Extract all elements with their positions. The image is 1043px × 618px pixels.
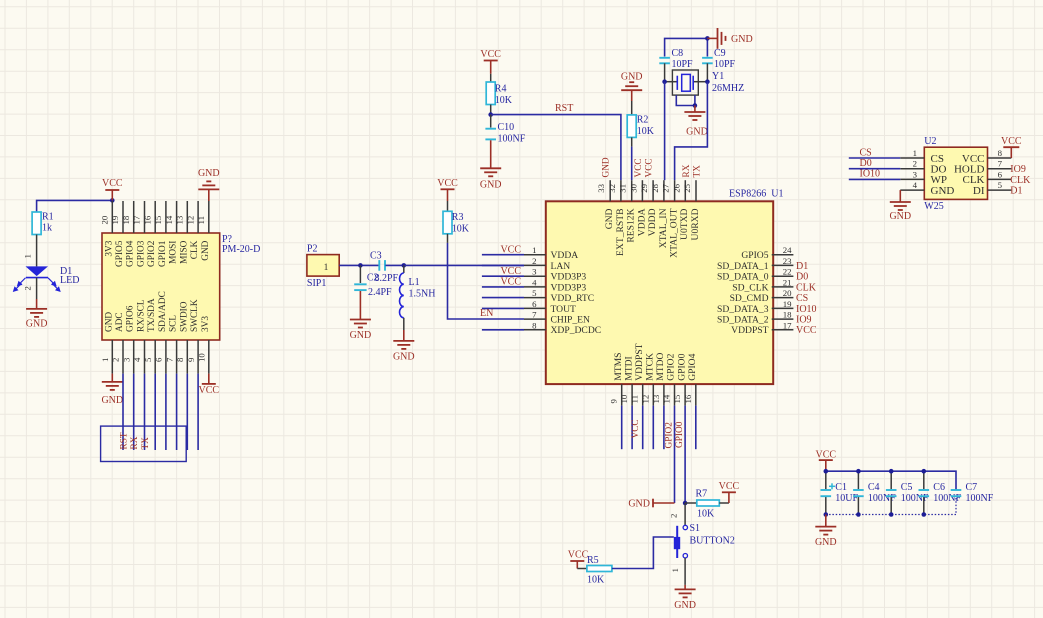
wire VCC to U1 pin 4 <box>482 286 524 288</box>
junction cap bottom <box>824 512 829 517</box>
svg-text:2.4PF: 2.4PF <box>368 287 392 298</box>
svg-text:100NF: 100NF <box>966 493 994 504</box>
svg-text:R4: R4 <box>495 84 507 95</box>
resistor R7 <box>685 502 697 504</box>
wire from P? pin 2 <box>122 374 124 450</box>
U1 pin 22 (SD_DATA_0) <box>772 275 794 277</box>
resistor R1 <box>32 212 41 235</box>
capacitor C8 <box>659 57 670 59</box>
ground bar label GND at GPIO2 <box>653 502 675 504</box>
capacitor C10 <box>490 115 492 128</box>
svg-text:1: 1 <box>532 245 536 255</box>
svg-text:GND: GND <box>686 127 708 138</box>
wire to U1 pin 8 <box>482 329 524 331</box>
svg-text:GPIO5: GPIO5 <box>741 250 768 261</box>
svg-text:GND: GND <box>628 499 650 510</box>
svg-text:BUTTON2: BUTTON2 <box>690 536 735 547</box>
svg-text:LED: LED <box>60 275 79 286</box>
U1 pin 19 (SD_DATA_3) <box>772 307 794 309</box>
svg-text:10UF: 10UF <box>835 493 858 504</box>
svg-text:3V3: 3V3 <box>104 240 114 256</box>
svg-text:GND: GND <box>26 319 48 330</box>
P? pin 20 (3V3) <box>111 201 113 233</box>
svg-text:13: 13 <box>651 394 661 403</box>
svg-text:L1: L1 <box>409 277 420 288</box>
svg-text:1k: 1k <box>42 223 52 234</box>
U2 pin 8 (VCC) <box>988 157 1012 159</box>
svg-text:SWCLK: SWCLK <box>190 299 200 332</box>
U1 pin 14 (GPIO2) <box>674 384 676 406</box>
C1 polarity plus <box>829 485 835 487</box>
svg-text:D0: D0 <box>860 158 872 169</box>
blue harness box <box>101 426 187 461</box>
svg-text:GPIO4: GPIO4 <box>126 240 136 267</box>
U1 pin 24 (GPIO5) <box>772 254 794 256</box>
wire XTAL_OUT to U1 pin 27 <box>675 82 708 181</box>
wire from P? pin 3 <box>133 374 135 450</box>
svg-text:2: 2 <box>913 159 917 169</box>
ground at U2 pin 4 <box>899 190 901 202</box>
svg-text:GPIO3: GPIO3 <box>137 240 147 267</box>
svg-text:18: 18 <box>121 215 131 224</box>
junction antenna node <box>358 263 363 268</box>
ground right of crystal top (rotated) <box>707 37 717 39</box>
wire stub U1 pin 13 <box>663 406 665 450</box>
svg-text:29: 29 <box>639 183 649 192</box>
svg-text:32: 32 <box>607 184 617 193</box>
power VCC right of R7 <box>728 492 730 503</box>
svg-text:CS: CS <box>860 147 872 158</box>
svg-text:8.2PF: 8.2PF <box>375 273 399 284</box>
svg-text:U0TXD: U0TXD <box>679 208 690 240</box>
svg-text:IO10: IO10 <box>860 169 881 180</box>
svg-text:RES12K: RES12K <box>626 208 637 242</box>
U1 pin 6 (TOUT) <box>524 307 546 309</box>
svg-text:S1: S1 <box>690 523 701 534</box>
P? pin 14 (MOSI) <box>176 201 178 233</box>
junction cap top <box>889 469 894 474</box>
IC U1 ESP8266 body <box>546 201 773 384</box>
svg-text:22: 22 <box>783 267 792 277</box>
svg-text:15: 15 <box>153 215 163 224</box>
svg-text:10K: 10K <box>587 575 605 586</box>
svg-text:33: 33 <box>596 183 606 192</box>
svg-text:GND: GND <box>104 312 114 332</box>
D1 pin 2 <box>36 278 38 299</box>
svg-text:9: 9 <box>609 399 619 404</box>
wire to U1 pin 6 <box>482 307 524 309</box>
svg-text:10PF: 10PF <box>714 59 736 70</box>
inductor L1 <box>403 265 405 273</box>
ground under cap bank <box>825 515 827 527</box>
node RST junction <box>488 112 493 117</box>
svg-text:6: 6 <box>998 169 1003 179</box>
svg-text:CS: CS <box>796 293 808 304</box>
svg-text:1: 1 <box>324 263 329 273</box>
svg-text:100NF: 100NF <box>498 134 526 145</box>
svg-text:26: 26 <box>671 183 681 192</box>
svg-text:MOSI: MOSI <box>169 241 179 264</box>
svg-text:18: 18 <box>783 310 792 320</box>
svg-text:VDDPST: VDDPST <box>634 343 645 380</box>
svg-text:10K: 10K <box>697 509 715 520</box>
wire from P? pin 9 <box>197 374 199 450</box>
junction crystal left <box>662 79 667 84</box>
ground at P? pin 1 <box>111 374 113 382</box>
capacitor C9 <box>702 57 713 59</box>
junction cap bottom <box>856 512 861 517</box>
U2 pin 6 (CLK) <box>988 178 1012 180</box>
U1 pin 20 (SD_CMD) <box>772 297 794 299</box>
junction crystal right <box>705 79 710 84</box>
svg-text:EXT_RSTB: EXT_RSTB <box>615 209 626 256</box>
svg-text:SD_DATA_3: SD_DATA_3 <box>717 304 769 315</box>
svg-text:8: 8 <box>532 320 537 330</box>
svg-text:C1: C1 <box>835 482 847 493</box>
P? pin 9 (SWCLK) <box>197 340 199 374</box>
U2 pin 4 (GND) <box>900 189 924 191</box>
svg-text:MTCK: MTCK <box>645 353 656 381</box>
svg-text:IO9: IO9 <box>796 315 812 326</box>
svg-text:10K: 10K <box>452 224 470 235</box>
wire antenna net to U1 pin 2 <box>404 264 524 266</box>
svg-text:Y1: Y1 <box>712 71 724 82</box>
wire from P? pin 5 <box>154 374 156 450</box>
svg-text:GND: GND <box>201 240 211 260</box>
R1 pin 1 <box>36 235 38 267</box>
wire to U1 pin 2 <box>482 264 524 266</box>
U1 pin 28 (XTAL_IN) <box>663 180 665 201</box>
svg-text:CLK: CLK <box>190 240 200 259</box>
svg-text:GND: GND <box>604 208 615 229</box>
P? pin 4 (RX/SCL) <box>144 340 146 374</box>
svg-text:R5: R5 <box>587 555 599 566</box>
U1 pin 18 (SD_DATA_2) <box>772 318 794 320</box>
svg-text:SD_CMD: SD_CMD <box>730 293 769 304</box>
junction cap top <box>856 469 861 474</box>
svg-text:3: 3 <box>121 357 131 362</box>
ground at P? pin 11 (inverted) <box>208 189 210 201</box>
capacitor C5 <box>890 471 892 489</box>
svg-text:5: 5 <box>998 180 1003 190</box>
wire from P? pin 4 <box>144 374 146 450</box>
svg-text:8: 8 <box>998 148 1003 158</box>
svg-text:RX: RX <box>130 436 140 449</box>
svg-text:GPIO2: GPIO2 <box>665 422 675 449</box>
P? pin 7 (SCL) <box>176 340 178 374</box>
svg-text:13: 13 <box>175 215 185 224</box>
junction cap top <box>922 469 927 474</box>
U1 pin 10 (MTDI) <box>631 384 633 406</box>
wire crystal bottom loop <box>676 95 695 105</box>
svg-text:GPIO6: GPIO6 <box>126 305 136 332</box>
svg-text:17: 17 <box>132 215 142 224</box>
svg-text:9: 9 <box>186 357 196 362</box>
wire RST to U1 pin 32 <box>491 115 621 181</box>
svg-text:10K: 10K <box>495 95 513 106</box>
svg-text:GPIO5: GPIO5 <box>115 240 125 267</box>
capacitor C6 <box>923 471 925 489</box>
U1 pin 30 (VDDA) <box>641 180 643 201</box>
U1 pin 13 (MTDO) <box>663 384 665 406</box>
svg-text:P2: P2 <box>307 244 318 255</box>
U1 pin 23 (SD_DATA_1) <box>772 264 794 266</box>
P? pin 17 (GPIO3) <box>144 201 146 233</box>
svg-text:VCC: VCC <box>500 266 521 277</box>
junction crystal top <box>705 36 710 41</box>
svg-text:8: 8 <box>175 357 185 362</box>
svg-text:SD_CLK: SD_CLK <box>732 282 768 293</box>
U1 pin 11 (VDDPST) <box>642 384 644 406</box>
svg-text:GPIO1: GPIO1 <box>158 240 168 267</box>
svg-text:3V3: 3V3 <box>201 316 211 332</box>
U1 pin 17 (VDDPST) <box>772 329 794 331</box>
U2 pin 7 (HOLD) <box>988 168 1012 170</box>
resistor R2 <box>631 101 633 115</box>
power VCC at P? pin 10 (inverted) <box>208 374 210 384</box>
svg-text:27: 27 <box>661 183 671 192</box>
svg-text:VCC: VCC <box>631 419 641 438</box>
svg-text:7: 7 <box>532 310 537 320</box>
svg-text:6: 6 <box>532 299 537 309</box>
svg-text:GND: GND <box>101 395 123 406</box>
svg-text:GPIO0: GPIO0 <box>676 353 687 380</box>
wire VCC to R1 <box>37 200 113 212</box>
svg-text:VCC: VCC <box>796 325 817 336</box>
svg-text:21: 21 <box>783 277 792 287</box>
svg-text:XTAL_IN: XTAL_IN <box>658 208 669 248</box>
resistor R4 <box>490 74 492 82</box>
wire CS to U2 pin 1 <box>849 157 901 159</box>
svg-text:TX/SDA: TX/SDA <box>147 298 157 332</box>
svg-text:1.5NH: 1.5NH <box>409 289 436 300</box>
svg-text:20: 20 <box>783 288 792 298</box>
wire D0 to U2 pin 2 <box>849 168 901 170</box>
svg-text:31: 31 <box>618 184 628 193</box>
svg-text:PM-20-D: PM-20-D <box>222 244 260 255</box>
U2 pin 5 (DI) <box>988 189 1012 191</box>
svg-text:MTDI: MTDI <box>623 356 634 381</box>
wire stub U1 pin 9 <box>621 406 623 450</box>
svg-text:VDD3P3: VDD3P3 <box>551 282 587 293</box>
svg-text:CHIP_EN: CHIP_EN <box>551 315 591 326</box>
svg-text:2: 2 <box>532 256 536 266</box>
svg-text:14: 14 <box>662 394 672 403</box>
wire VCC to U1 pin 1 <box>482 254 524 256</box>
svg-text:VDD3P3: VDD3P3 <box>551 272 587 283</box>
svg-text:SD_DATA_1: SD_DATA_1 <box>717 261 769 272</box>
wire to U1 pin 5 <box>482 297 524 299</box>
svg-text:3: 3 <box>913 169 918 179</box>
P? pin 1 (GND) <box>111 340 113 374</box>
svg-text:R2: R2 <box>637 115 649 126</box>
svg-text:CLK: CLK <box>796 282 817 293</box>
svg-text:11: 11 <box>196 216 206 224</box>
svg-text:LAN: LAN <box>551 261 571 272</box>
capacitor C4 <box>857 471 859 489</box>
svg-text:28: 28 <box>650 183 660 192</box>
P? pin 6 (SDA/ADC) <box>165 340 167 374</box>
wire P2 to C3 <box>339 264 379 266</box>
svg-text:SD_DATA_0: SD_DATA_0 <box>717 272 769 283</box>
svg-text:GND: GND <box>350 330 372 341</box>
svg-text:7: 7 <box>164 357 174 362</box>
svg-text:RX/SCL: RX/SCL <box>137 299 147 332</box>
svg-text:ADC: ADC <box>115 312 125 332</box>
P? pin 11 (GND) <box>208 201 210 233</box>
svg-text:XTAL_OUT: XTAL_OUT <box>669 208 680 257</box>
wire cap bank top bus <box>826 471 956 490</box>
svg-text:GND: GND <box>889 211 911 222</box>
junction crystal bottom <box>693 103 698 108</box>
svg-text:VDDA: VDDA <box>636 208 647 236</box>
power VCC at P? pin 20 <box>111 190 113 200</box>
wire stub U1 pin 12 <box>652 406 654 450</box>
svg-text:MTMS: MTMS <box>613 353 624 381</box>
svg-text:XDP_DCDC: XDP_DCDC <box>551 325 602 336</box>
ground under crystal <box>694 106 696 113</box>
resistor R3 <box>447 201 449 211</box>
svg-text:6: 6 <box>154 357 164 362</box>
svg-text:GPIO0: GPIO0 <box>675 421 685 448</box>
svg-text:VDDPST: VDDPST <box>731 325 768 336</box>
ground under L1 <box>403 318 405 330</box>
U1 pin 27 (XTAL_OUT) <box>674 180 676 201</box>
svg-text:TX: TX <box>693 165 703 178</box>
switch S1 BUTTON2 <box>684 503 686 525</box>
svg-text:17: 17 <box>783 320 792 330</box>
svg-text:15: 15 <box>672 394 682 403</box>
junction cap bottom <box>922 512 927 517</box>
svg-text:GND: GND <box>621 72 643 83</box>
wire stub U1 pin 16 <box>695 406 697 450</box>
svg-text:R1: R1 <box>42 212 54 223</box>
P? pin 2 (ADC) <box>122 340 124 374</box>
svg-text:R7: R7 <box>696 489 708 500</box>
svg-text:TOUT: TOUT <box>551 304 577 315</box>
svg-text:D0: D0 <box>796 272 808 283</box>
svg-text:4: 4 <box>532 277 537 287</box>
wire VCC to U1 pin 3 <box>482 275 524 277</box>
U1 pin 8 (XDP_DCDC) <box>524 329 546 331</box>
wire from P? pin 7 <box>176 374 178 450</box>
svg-text:10PF: 10PF <box>672 59 694 70</box>
svg-text:C5: C5 <box>901 482 913 493</box>
svg-text:D1: D1 <box>1010 186 1022 197</box>
wire U1 pin 15 down to button <box>684 406 686 503</box>
svg-text:R3: R3 <box>452 212 464 223</box>
svg-text:16: 16 <box>142 215 152 224</box>
svg-text:100NF: 100NF <box>933 493 961 504</box>
ground under C2 <box>359 291 361 320</box>
svg-text:5: 5 <box>143 357 153 362</box>
svg-text:C3: C3 <box>370 251 382 262</box>
wire cap bank bottom bus <box>826 496 956 515</box>
ground under C10 <box>490 140 492 168</box>
svg-text:7: 7 <box>998 159 1003 169</box>
svg-text:SIP1: SIP1 <box>307 278 326 289</box>
capacitor C1 <box>825 471 827 489</box>
svg-text:TX: TX <box>141 437 151 450</box>
svg-text:GND: GND <box>198 168 220 179</box>
svg-text:C10: C10 <box>498 122 515 133</box>
svg-text:EN: EN <box>480 308 493 319</box>
svg-text:U2: U2 <box>924 136 936 147</box>
svg-text:VCC: VCC <box>102 178 123 189</box>
svg-text:1: 1 <box>670 568 680 572</box>
svg-text:VDD_RTC: VDD_RTC <box>551 293 595 304</box>
svg-text:IO10: IO10 <box>796 304 817 315</box>
U1 pin 7 (CHIP_EN) <box>524 318 546 320</box>
P? pin 18 (GPIO4) <box>133 201 135 233</box>
svg-text:GND: GND <box>815 537 837 548</box>
svg-text:100NF: 100NF <box>901 493 929 504</box>
svg-text:MTDO: MTDO <box>655 352 666 380</box>
U1 pin 4 (VDD3P3) <box>524 286 546 288</box>
connector P? PM-20-D body <box>102 233 220 340</box>
svg-text:VCC: VCC <box>719 481 740 492</box>
P? pin 19 (GPIO5) <box>122 201 124 233</box>
LED D1 <box>26 266 49 276</box>
svg-text:RX: RX <box>682 164 692 177</box>
U1 pin 15 (GPIO0) <box>684 384 686 406</box>
svg-text:25: 25 <box>682 183 692 192</box>
P? pin 15 (GPIO1) <box>165 201 167 233</box>
svg-text:VCC: VCC <box>500 244 521 255</box>
svg-text:VCC: VCC <box>480 49 501 60</box>
IC U2 W25 body <box>924 147 987 199</box>
wire R3 to U1 pin 7 (EN) <box>448 243 525 319</box>
U1 pin 26 (U0TXD) <box>684 180 686 201</box>
junction L1 node <box>402 263 407 268</box>
U2 pin 2 (DO) <box>900 168 924 170</box>
svg-text:14: 14 <box>164 215 174 224</box>
svg-text:11: 11 <box>630 395 640 403</box>
svg-text:1: 1 <box>23 254 33 258</box>
svg-text:IO9: IO9 <box>1010 164 1026 175</box>
svg-text:1: 1 <box>100 358 110 362</box>
svg-text:RST: RST <box>119 432 129 449</box>
P? pin 8 (SWDIO) <box>186 340 188 374</box>
P? pin 16 (GPIO2) <box>154 201 156 233</box>
junction at module pin 20 / VCC <box>110 198 115 203</box>
svg-text:VCC: VCC <box>568 550 589 561</box>
ground under S1 <box>684 585 686 590</box>
svg-text:23: 23 <box>783 256 792 266</box>
U1 pin 1 (VDDA) <box>524 254 546 256</box>
wire C3 to L1 <box>385 264 403 266</box>
svg-text:20: 20 <box>100 215 110 224</box>
svg-text:10: 10 <box>619 394 629 403</box>
svg-text:SDA/ADC: SDA/ADC <box>158 291 168 332</box>
svg-text:GPIO2: GPIO2 <box>147 240 157 267</box>
svg-text:10K: 10K <box>637 126 655 137</box>
svg-text:W25: W25 <box>924 201 943 212</box>
svg-text:3: 3 <box>532 267 537 277</box>
wire R2 to U1 pin 31 <box>631 147 633 181</box>
svg-text:VCC: VCC <box>816 450 837 461</box>
svg-text:2: 2 <box>111 358 121 362</box>
svg-text:5: 5 <box>532 288 537 298</box>
U1 pin 12 (MTCK) <box>652 384 654 406</box>
U2 pin 3 (WP) <box>900 178 924 180</box>
wire stub U1 pin 11 <box>642 406 644 450</box>
svg-text:GND: GND <box>480 180 502 191</box>
wire U1 pin 14 down <box>674 406 676 503</box>
U1 pin 32 (EXT_RSTB) <box>620 180 622 201</box>
svg-text:GPIO2: GPIO2 <box>666 353 677 380</box>
svg-text:MISO: MISO <box>179 240 189 264</box>
